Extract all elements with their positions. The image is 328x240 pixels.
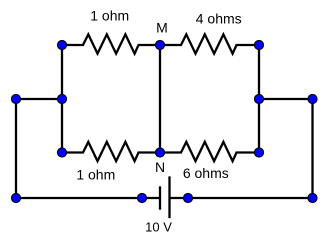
wire: right middle horizontal (259,99)-(312.5,99) — [259, 98, 313, 100]
node M junction dot (160,45) — [155, 40, 164, 49]
node N junction dot (160,152.5) — [155, 148, 164, 157]
svg-text:4 ohms: 4 ohms — [196, 11, 242, 27]
junction node (62,152.5) — [57, 148, 66, 157]
wire: right outer vertical (312.5,99)-(312.5,198) — [311, 99, 313, 198]
svg-text:1 ohm: 1 ohm — [90, 8, 129, 24]
wire: bottom left horizontal (16,198)-(159,198) — [16, 197, 159, 199]
junction node (16,99) — [11, 94, 20, 103]
wire: right inner vertical (259,45)-(259,152.5) — [258, 45, 260, 153]
wire: center vertical M to N (160,45)-(160,152.5) — [159, 45, 161, 153]
svg-text:1 ohm: 1 ohm — [76, 167, 115, 183]
junction node (62,45) — [57, 40, 66, 49]
resistor R3 1 ohm (middle left, between left node and N) — [62, 142, 160, 161]
resistor R2 4 ohms (top right, between M and right node) — [160, 34, 259, 53]
battery V1 positive plate (long bar) — [168, 178, 170, 218]
svg-text:10 V: 10 V — [145, 220, 172, 235]
junction node (16,198) — [11, 193, 20, 202]
junction node (259,99) — [254, 94, 263, 103]
svg-text:N: N — [155, 159, 165, 175]
junction node (142,198) battery left — [137, 193, 146, 202]
junction node (312.5,99) — [308, 94, 317, 103]
resistor R1 1 ohm (top left, between left node and M) — [62, 34, 160, 53]
svg-text:6 ohms: 6 ohms — [183, 165, 229, 181]
wire: left outer vertical (16,99)-(16,198) — [15, 99, 17, 198]
wire: left inner vertical (62,45)-(62,152.5) — [61, 45, 63, 153]
junction node (259,152.5) — [254, 148, 263, 157]
junction node (259,45) — [254, 40, 263, 49]
wire: left middle horizontal (16,99)-(62,99) — [16, 98, 62, 100]
resistor R4 6 ohms (middle right, between N and right node) — [160, 142, 259, 161]
junction node (312.5,198) — [308, 193, 317, 202]
wire: bottom right horizontal (170,198)-(312.5,198) — [170, 197, 313, 199]
svg-text:M: M — [156, 20, 168, 36]
battery V1 negative plate (short bar) — [159, 188, 161, 209]
junction node (62,99) — [57, 94, 66, 103]
junction node (188,198) battery right — [183, 193, 192, 202]
